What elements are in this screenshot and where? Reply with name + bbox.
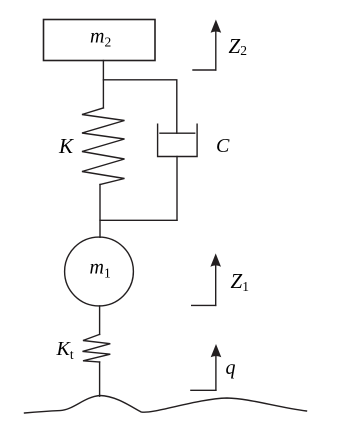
- arrowhead Z1: [210, 253, 221, 266]
- wire: spring K bottom rod: [99, 185, 101, 238]
- svg-text:C: C: [216, 135, 230, 157]
- svg-text:q: q: [226, 357, 236, 379]
- arrow Z1 shaft: [215, 263, 217, 305]
- svg-text:K: K: [58, 134, 74, 158]
- arrow q shaft: [215, 355, 217, 391]
- wire: branch to damper: [103, 80, 176, 133]
- wire: bottom connector between spring and damper: [100, 219, 177, 221]
- spring Kt: [83, 334, 111, 362]
- svg-text:Z2: Z2: [229, 34, 247, 58]
- spring K: [82, 108, 125, 185]
- damper C piston: [160, 132, 195, 134]
- svg-text:Z1: Z1: [231, 269, 249, 294]
- svg-text:Kt: Kt: [56, 338, 74, 362]
- wire: rod from spring Kt to ground: [99, 362, 101, 396]
- wire: rod from m1 to spring Kt: [99, 306, 101, 335]
- arrow Z2 base: [193, 69, 216, 71]
- svg-text:m2: m2: [90, 26, 111, 50]
- wire: rod from m2 to spring K top: [102, 61, 104, 108]
- mass m1 (circle): [65, 237, 134, 306]
- arrow Z1 base: [192, 304, 216, 306]
- arrow q base: [191, 389, 216, 391]
- arrow Z2 shaft: [215, 29, 217, 70]
- arrowhead Z2: [211, 20, 222, 33]
- damper C cylinder cup: [158, 124, 198, 156]
- mass m2 (rectangle): [44, 20, 156, 61]
- ground wave: [25, 396, 307, 414]
- wire: damper bottom rod: [176, 157, 178, 221]
- svg-text:m1: m1: [90, 256, 111, 280]
- arrowhead q: [211, 344, 222, 357]
